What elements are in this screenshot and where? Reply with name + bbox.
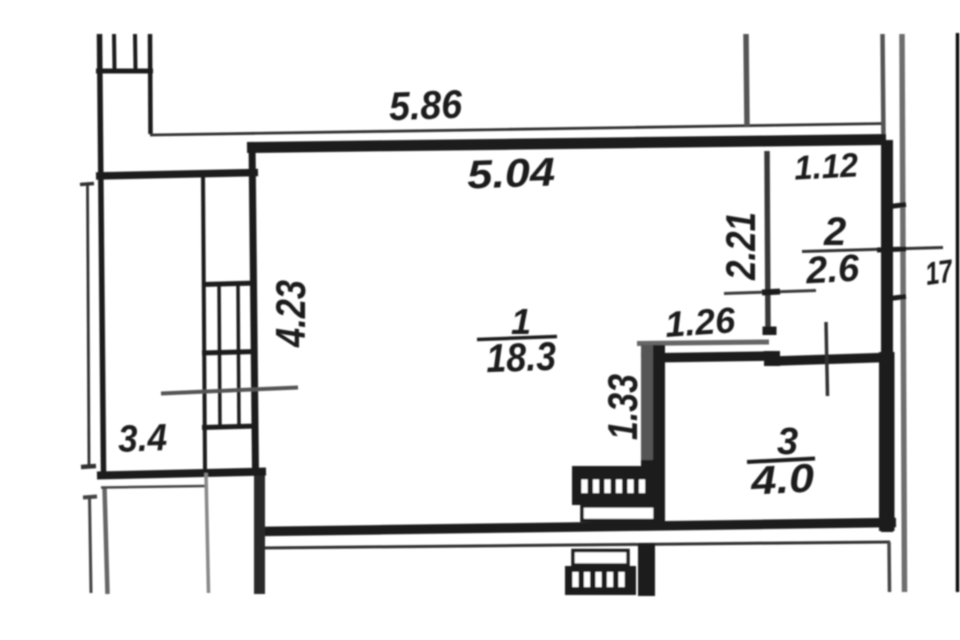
far right page edge line [956, 33, 960, 592]
thin line under balcony wall [101, 486, 205, 488]
room 3 right wall (thick) [879, 352, 895, 531]
window tick 1 on right wall [890, 205, 906, 207]
radiator block 2 white box [573, 551, 628, 566]
left dim lower top tick [83, 497, 97, 498]
dimension line 5.86 (thin top line) [150, 124, 885, 136]
bottom wall of rooms (thick) [258, 523, 896, 532]
wall room1/room3 (vertical thick) [641, 345, 665, 527]
thin line below bottom wall [259, 542, 890, 548]
balcony bottom wall [97, 472, 266, 476]
window tick 2 on right wall [890, 297, 906, 299]
room3 label underline [747, 459, 815, 463]
svg-text:3.4: 3.4 [117, 417, 167, 461]
room 2 right wall (thick, continuous to bottom wall) [881, 140, 893, 532]
chimney hatch line 1 [112, 34, 117, 70]
wall right of radiator 2 [638, 543, 655, 596]
wall chimney left / balcony left outer wall [100, 34, 104, 472]
svg-text:1.33: 1.33 [599, 374, 646, 440]
left dimension line lower [90, 497, 92, 593]
svg-text:2: 2 [823, 210, 846, 254]
svg-text:1.12: 1.12 [793, 146, 859, 187]
wall room2/room3 [776, 358, 884, 362]
partition end tick [763, 327, 777, 336]
radiator block 1 (black with white dashes) [572, 466, 665, 505]
left dim upper bottom tick [81, 466, 96, 467]
svg-text:2.6: 2.6 [804, 248, 861, 293]
step wall top thin line [637, 342, 769, 344]
svg-text:1.26: 1.26 [664, 299, 738, 345]
gray wall line below balcony [105, 487, 108, 594]
svg-text:4.23: 4.23 [267, 280, 314, 348]
svg-text:5.04: 5.04 [466, 150, 555, 197]
top right vertical stub a [883, 34, 884, 140]
svg-text:5.86: 5.86 [388, 83, 463, 130]
step wall thick line [641, 356, 770, 358]
chimney right wall [148, 34, 153, 134]
balcony top wall [96, 173, 258, 177]
stair left rail extension (gray) [206, 473, 209, 593]
junction block partition/step [764, 351, 780, 366]
svg-text:4.0: 4.0 [749, 456, 815, 503]
dimension line y 250 (room2 label underline) [802, 248, 943, 252]
stair inner rail 1 [219, 282, 220, 429]
stair rung 3 [202, 426, 257, 428]
left dimension line upper [88, 184, 90, 468]
top mid vertical stub [746, 34, 747, 126]
blob at right wall crossing [877, 249, 906, 250]
dimension tick line 2.21 (y 292) [724, 291, 816, 294]
room1 label underline [477, 337, 557, 340]
thick wall below balcony [254, 472, 265, 594]
radiator 1 white box [582, 506, 655, 521]
stair rung 1 [202, 283, 257, 285]
blob at partition crossing [762, 292, 780, 293]
left dim upper top tick [80, 184, 94, 185]
right lower vertical a [887, 542, 891, 592]
radiator block 2 (black with white dashes) [565, 566, 636, 595]
partition wall room1/room2 [767, 151, 768, 331]
chimney bottom bar [96, 69, 153, 74]
cross tick x 826 [826, 322, 828, 396]
svg-text:2.21: 2.21 [717, 212, 764, 281]
svg-text:18.3: 18.3 [485, 335, 556, 381]
chimney hatch line 2 [133, 34, 138, 70]
stair rung 2 [202, 352, 257, 354]
stair left rail [203, 176, 205, 470]
stair inner rail 2 [238, 282, 239, 429]
outer right gray wall line [902, 34, 905, 592]
top wall of room 1 (thick) [247, 140, 886, 148]
stair crossing line [161, 388, 298, 394]
room 1 left wall [252, 142, 256, 473]
